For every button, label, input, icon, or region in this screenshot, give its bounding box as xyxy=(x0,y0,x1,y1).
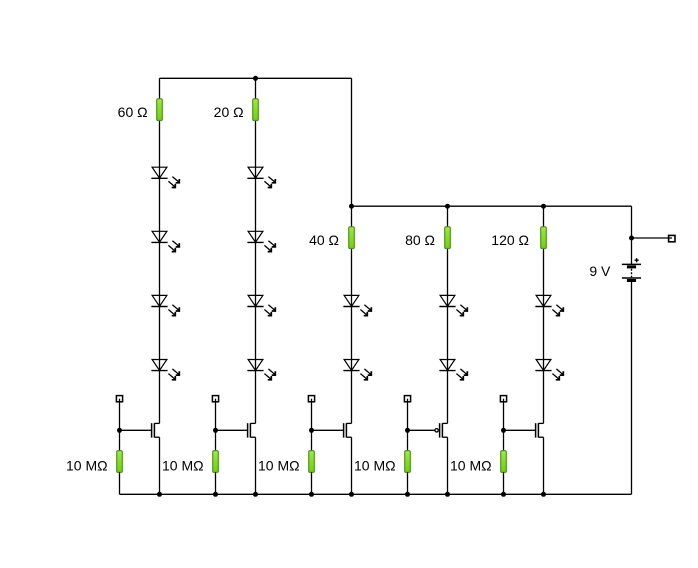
svg-text:9 V: 9 V xyxy=(589,263,611,279)
wire gate resistor top lead 1 xyxy=(119,430,121,450)
junction bottom rail / col2 xyxy=(253,492,258,497)
svg-text:80 Ω: 80 Ω xyxy=(405,232,435,248)
svg-text:10 MΩ: 10 MΩ xyxy=(354,458,396,474)
LED D col4 row2 xyxy=(439,360,467,380)
LED D col2 row2 xyxy=(247,231,275,251)
wire column 4 drain branch xyxy=(447,206,449,423)
resistor body R top 60 Ω xyxy=(157,99,163,121)
wire gate resistor bottom lead 5 xyxy=(503,472,505,494)
wire middle rail xyxy=(352,205,632,207)
wire right rail upper xyxy=(631,206,633,264)
junction bottom rail / gate4 xyxy=(405,492,410,497)
MOSFET Q2 xyxy=(248,423,256,437)
terminal post T5 gate post xyxy=(500,396,506,402)
junction mid rail / col4 xyxy=(445,204,450,209)
wire column 5 drain branch xyxy=(543,206,545,423)
junction bottom rail / col3 xyxy=(349,492,354,497)
terminal post T2 gate post xyxy=(212,396,218,402)
wire column 2 drain branch xyxy=(255,78,257,423)
wire gate wire 5 xyxy=(504,429,536,431)
svg-text:10 MΩ: 10 MΩ xyxy=(66,458,108,474)
terminal post switch (right) xyxy=(669,235,675,241)
wire column 5 source branch xyxy=(543,437,545,494)
LED D col5 row2 xyxy=(535,360,563,380)
LED D col2 row3 xyxy=(247,295,275,315)
junction gate node 1 xyxy=(117,428,122,433)
wire gate post lead 4 xyxy=(407,399,409,431)
junction gate node 5 xyxy=(501,428,506,433)
svg-text:120 Ω: 120 Ω xyxy=(491,232,529,248)
wire gate wire 2 xyxy=(216,429,248,431)
LED D col3 row2 xyxy=(343,360,371,380)
LED D col2 row1 xyxy=(247,167,275,187)
resistor body R top 120 Ω xyxy=(541,227,547,249)
wire gate post lead 3 xyxy=(311,399,313,431)
LED D col1 row2 xyxy=(151,231,179,251)
terminal post T1 gate post xyxy=(116,396,122,402)
wire top rail xyxy=(160,77,352,79)
svg-text:10 MΩ: 10 MΩ xyxy=(162,458,204,474)
MOSFET Q3 xyxy=(344,423,352,437)
wire column 4 source branch xyxy=(447,437,449,494)
terminal post T4 gate post xyxy=(404,396,410,402)
wire gate resistor bottom lead 2 xyxy=(215,472,217,494)
junction bottom rail / gate5 xyxy=(501,492,506,497)
junction gate node 2 xyxy=(213,428,218,433)
junction battery tap node xyxy=(629,236,634,241)
svg-text:20 Ω: 20 Ω xyxy=(214,104,244,120)
wire column 3 source branch xyxy=(351,437,353,494)
wire gate post lead 2 xyxy=(215,399,217,431)
terminal post T3 gate post xyxy=(308,396,314,402)
resistor body R top 80 Ω xyxy=(445,227,451,249)
MOSFET Q5 xyxy=(536,423,544,437)
wire column 2 source branch xyxy=(255,437,257,494)
junction gate node 3 xyxy=(309,428,314,433)
resistor body R top 40 Ω xyxy=(349,227,355,249)
wire gate resistor top lead 2 xyxy=(215,430,217,450)
junction bottom rail / col1 xyxy=(157,492,162,497)
wire gate resistor top lead 3 xyxy=(311,430,313,450)
resistor body R gate 3 10 MΩ xyxy=(309,451,315,473)
wire column 1 drain branch xyxy=(159,78,161,423)
wire gate wire 3 xyxy=(312,429,344,431)
wire right rail lower xyxy=(631,282,633,494)
wire gate resistor bottom lead 1 xyxy=(119,472,121,494)
wire gate resistor top lead 4 xyxy=(407,430,409,450)
svg-text:10 MΩ: 10 MΩ xyxy=(258,458,300,474)
LED D col5 row1 xyxy=(535,295,563,315)
wire gate wire 4 xyxy=(408,429,435,431)
junction mid rail / col5 xyxy=(541,204,546,209)
svg-text:60 Ω: 60 Ω xyxy=(118,104,148,120)
wire bottom rail xyxy=(120,493,632,495)
wire gate resistor bottom lead 3 xyxy=(311,472,313,494)
resistor body R gate 2 10 MΩ xyxy=(213,451,219,473)
battery V1 9V xyxy=(622,258,641,280)
wire column 3 drain branch xyxy=(351,78,353,423)
wire battery tap stub xyxy=(632,237,673,239)
LED D col3 row1 xyxy=(343,295,371,315)
LED D col4 row1 xyxy=(439,295,467,315)
LED D col2 row4 xyxy=(247,360,275,380)
wire column 1 source branch xyxy=(159,437,161,494)
junction top rail / col2 xyxy=(253,76,258,81)
junction bottom rail / col4 xyxy=(445,492,450,497)
junction mid rail / col3 xyxy=(349,204,354,209)
wire gate post lead 1 xyxy=(119,399,121,431)
LED D col1 row4 xyxy=(151,360,179,380)
resistor body R top 20 Ω xyxy=(253,99,259,121)
junction gate node 4 xyxy=(405,428,410,433)
junction bottom rail / col5 xyxy=(541,492,546,497)
junction bottom rail / gate3 xyxy=(309,492,314,497)
wire gate resistor bottom lead 4 xyxy=(407,472,409,494)
junction bottom rail / gate2 xyxy=(213,492,218,497)
svg-text:40 Ω: 40 Ω xyxy=(309,232,339,248)
wire gate resistor top lead 5 xyxy=(503,430,505,450)
resistor body R gate 5 10 MΩ xyxy=(501,451,507,473)
svg-text:10 MΩ: 10 MΩ xyxy=(450,458,492,474)
wire gate wire 1 xyxy=(120,429,152,431)
MOSFET Q1 xyxy=(152,423,160,437)
resistor body R gate 4 10 MΩ xyxy=(405,451,411,473)
MOSFET Q4 xyxy=(435,423,448,437)
LED D col1 row1 xyxy=(151,167,179,187)
resistor body R gate 1 10 MΩ xyxy=(117,451,123,473)
wire gate post lead 5 xyxy=(503,399,505,431)
LED D col1 row3 xyxy=(151,295,179,315)
